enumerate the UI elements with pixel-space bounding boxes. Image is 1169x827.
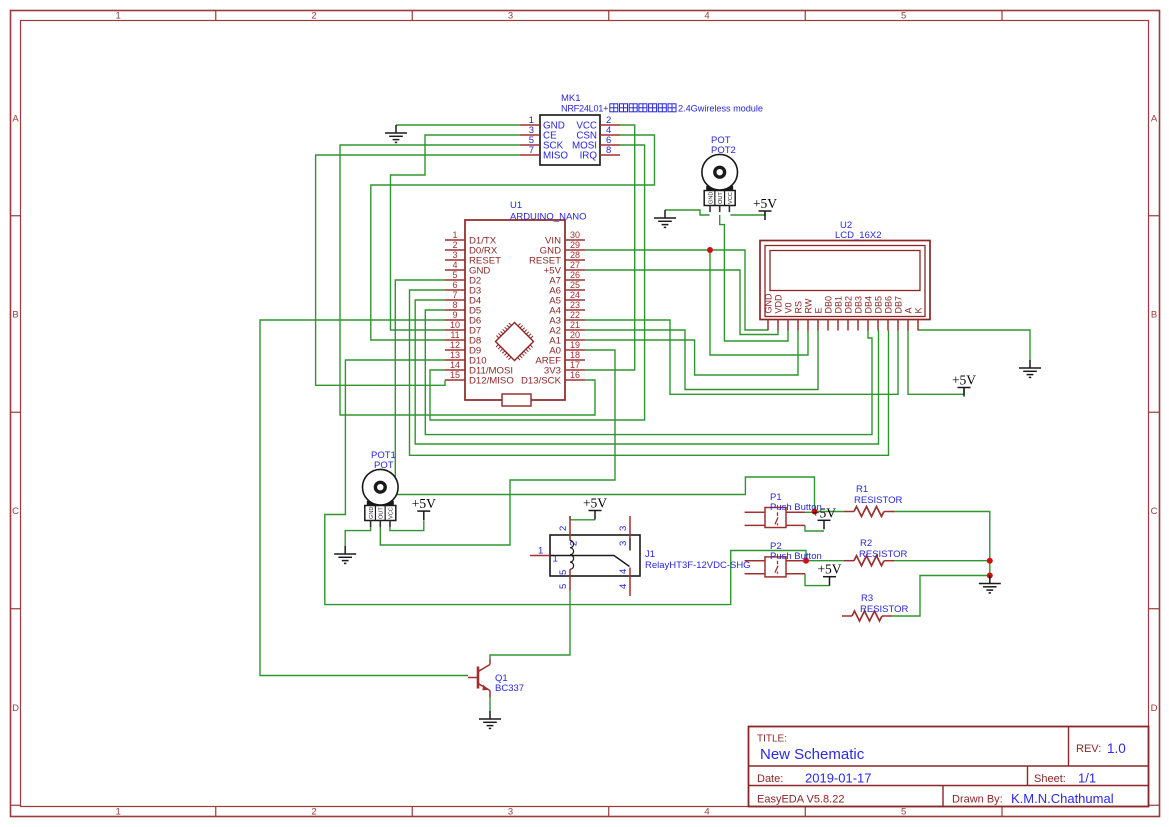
ground near POT2 — [654, 210, 676, 227]
wire relay pin2 to +5V — [570, 516, 595, 520]
relay J1 — [530, 516, 751, 596]
potentiometer POT1 — [363, 469, 399, 527]
svg-text:4: 4 — [452, 260, 457, 270]
svg-text:DB5: DB5 — [873, 296, 883, 314]
wire net LCD.A to +5V — [908, 330, 964, 394]
svg-text:TITLE:: TITLE: — [757, 734, 787, 745]
svg-text:+5V: +5V — [412, 496, 436, 511]
U2 pin 7 DB0 — [827, 320, 829, 331]
svg-text:3: 3 — [508, 807, 513, 818]
svg-text:6: 6 — [452, 280, 457, 290]
svg-text:RelayHT3F-12VDC-SHG: RelayHT3F-12VDC-SHG — [645, 560, 751, 571]
U2 pin 4 RS — [797, 320, 799, 331]
J1 pin 4 — [629, 568, 631, 597]
svg-text:7: 7 — [452, 290, 457, 300]
svg-text:GND: GND — [763, 293, 773, 314]
junction GND net — [707, 247, 713, 253]
J1 pin 1 — [530, 555, 550, 557]
svg-text:+5V: +5V — [817, 562, 841, 577]
IC U1 ARDUINO_NANO — [445, 200, 587, 406]
svg-text:C: C — [12, 506, 19, 517]
svg-text:2: 2 — [558, 526, 569, 531]
svg-text:1: 1 — [452, 230, 457, 240]
wire net +5V U1.27 to LCD.VDD — [585, 270, 778, 335]
svg-text:+5V: +5V — [952, 373, 976, 388]
U2 pin 2 VDD — [777, 320, 779, 331]
svg-text:+5V: +5V — [583, 496, 607, 511]
svg-text:2.4Gwireless module: 2.4Gwireless module — [678, 104, 763, 114]
U1 pin 10 D7 — [445, 329, 465, 331]
wire net MK1.CE to U1.D7 — [391, 135, 521, 330]
wire net U1.D5 to LCD.DB4 — [425, 310, 872, 435]
svg-text:RS: RS — [793, 301, 803, 314]
svg-text:30: 30 — [570, 230, 580, 240]
svg-text:23: 23 — [570, 300, 580, 310]
module MK1 NRF24L01 — [520, 93, 763, 165]
wire net U1.D3 to LCD.DB6 — [410, 290, 889, 455]
junction R3 ground rail — [987, 573, 993, 579]
svg-text:9: 9 — [452, 310, 457, 320]
svg-text:GND: GND — [708, 192, 714, 204]
wire net POT2.OUT to LCD.V0 — [720, 215, 788, 341]
wire net MK1.MISO to U1.D12 — [316, 155, 520, 385]
svg-text:4: 4 — [618, 569, 629, 574]
ground LCD K — [1019, 360, 1041, 377]
svg-text:8: 8 — [452, 300, 457, 310]
svg-text:24: 24 — [570, 290, 580, 300]
MK1 pin 8 IRQ — [600, 154, 620, 156]
svg-text:3: 3 — [452, 250, 457, 260]
U2 pin 14 DB7 — [897, 320, 899, 331]
wire R3 to ground rail — [892, 576, 990, 617]
svg-text:Push Button: Push Button — [770, 502, 822, 513]
svg-text:POT2: POT2 — [711, 145, 736, 156]
U1 pin 30 VIN — [565, 239, 585, 241]
J1 coil — [570, 541, 574, 570]
svg-text:22: 22 — [570, 310, 580, 320]
svg-text:11: 11 — [450, 330, 459, 340]
svg-text:7: 7 — [529, 145, 534, 156]
svg-text:RESISTOR: RESISTOR — [859, 549, 908, 560]
svg-text:2: 2 — [452, 240, 457, 250]
svg-text:21: 21 — [570, 320, 580, 330]
resistor R3 — [842, 611, 892, 621]
wire net U1.D6 to Q1 base — [260, 320, 468, 676]
svg-text:A: A — [903, 307, 913, 313]
wire Q1 emitter to ground — [489, 698, 491, 712]
U1 pin 9 D6 — [445, 319, 465, 321]
svg-text:NRF24L01+: NRF24L01+ — [561, 104, 609, 114]
wire net MK1.MOSI to U1.D11 — [430, 145, 645, 420]
svg-text:D: D — [1151, 703, 1158, 714]
J1 contact arm — [550, 556, 630, 567]
svg-text:D: D — [12, 703, 19, 714]
svg-text:VDD: VDD — [773, 294, 783, 314]
svg-text:DB2: DB2 — [843, 296, 853, 314]
U1 pin 7 D4 — [445, 299, 465, 301]
U2 pin 1 GND — [767, 320, 769, 331]
svg-text:16: 16 — [570, 370, 580, 380]
U1 pin 28 RESET — [565, 259, 585, 261]
MK1 pin 4 CSN — [600, 134, 620, 136]
svg-text:5: 5 — [452, 270, 457, 280]
svg-text:3: 3 — [618, 541, 629, 546]
wire junction to R1 — [815, 511, 845, 513]
+5V relay — [589, 511, 602, 520]
junction R2 ground rail — [987, 558, 993, 564]
MK1 pin 5 SCK — [520, 144, 540, 146]
svg-text:5: 5 — [901, 11, 906, 22]
+5V P2 — [823, 577, 836, 586]
svg-text:5: 5 — [558, 584, 569, 589]
U2 pin 15 A — [907, 320, 909, 331]
U1 pin 23 A4 — [565, 309, 585, 311]
svg-text:1: 1 — [115, 11, 120, 22]
svg-text:K.M.N.Chathumal: K.M.N.Chathumal — [1011, 791, 1114, 806]
U1 pin 14 D11/MOSI — [445, 369, 465, 371]
U1 pin 21 A2 — [565, 329, 585, 331]
svg-text:25: 25 — [570, 280, 580, 290]
svg-text:4: 4 — [704, 807, 709, 818]
svg-text:15: 15 — [450, 370, 460, 380]
svg-text:2: 2 — [311, 807, 316, 818]
svg-text:1: 1 — [115, 807, 120, 818]
svg-text:POT: POT — [374, 460, 394, 471]
U2 pin 3 V0 — [787, 320, 789, 331]
U1 pin 2 D0/RX — [445, 249, 465, 251]
U1 pin 25 A6 — [565, 289, 585, 291]
svg-text:27: 27 — [570, 260, 580, 270]
U2 pin 5 RW — [807, 320, 809, 331]
wire net LCD.K to ground — [918, 330, 1030, 360]
svg-text:3: 3 — [508, 11, 513, 22]
svg-text:E: E — [813, 307, 823, 313]
U1 pin 20 A1 — [565, 339, 585, 341]
ground Q1 emitter — [479, 711, 501, 728]
U2 pin 12 DB5 — [877, 320, 879, 331]
svg-text:26: 26 — [570, 270, 580, 280]
svg-text:DB7: DB7 — [893, 296, 903, 314]
U2 pin 6 E — [817, 320, 819, 331]
svg-text:D12/MISO: D12/MISO — [469, 376, 514, 387]
svg-text:8: 8 — [606, 145, 611, 156]
svg-text:DB1: DB1 — [833, 296, 843, 314]
display U2 LCD_16X2 — [760, 220, 930, 331]
svg-text:20: 20 — [570, 330, 580, 340]
svg-text:1/1: 1/1 — [1078, 771, 1096, 786]
wire net U1.A1 to LCD.RS — [585, 330, 798, 375]
svg-text:B: B — [12, 310, 18, 321]
svg-text:VCC: VCC — [728, 192, 734, 204]
svg-text:BC337: BC337 — [495, 683, 524, 694]
transistor Q1 BC337 — [468, 659, 524, 698]
U1 pin 19 A0 — [565, 349, 585, 351]
svg-text:2019-01-17: 2019-01-17 — [805, 771, 872, 786]
wire P1 pin to junction — [805, 511, 815, 513]
U1 pin 3 RESET — [445, 259, 465, 261]
+5V LCD A — [958, 388, 971, 397]
svg-text:5: 5 — [558, 570, 569, 575]
svg-text:5: 5 — [901, 807, 906, 818]
U1 pin 13 D10 — [445, 359, 465, 361]
svg-text:17: 17 — [570, 360, 580, 370]
svg-text:LCD_16X2: LCD_16X2 — [835, 230, 881, 241]
svg-text:GND: GND — [369, 507, 375, 519]
svg-text:IRQ: IRQ — [580, 151, 598, 162]
svg-text:R2: R2 — [860, 538, 872, 549]
svg-text:J1: J1 — [645, 549, 655, 560]
U1 pin 1 D1/TX — [445, 239, 465, 241]
svg-text:EasyEDA V5.8.22: EasyEDA V5.8.22 — [757, 794, 844, 806]
U2 pin 9 DB2 — [847, 320, 849, 331]
J1 pin 3 — [629, 516, 631, 538]
svg-text:R3: R3 — [861, 593, 873, 604]
potentiometer POT2 — [702, 154, 738, 212]
wire net U1.D10 to P2 — [325, 360, 806, 605]
U2 pin 13 DB6 — [887, 320, 889, 331]
svg-text:18: 18 — [570, 350, 580, 360]
svg-text:V0: V0 — [783, 302, 793, 313]
push button P1 — [745, 508, 805, 528]
U1 pin 5 D2 — [445, 279, 465, 281]
svg-text:28: 28 — [570, 250, 580, 260]
U1 pin 15 D12/MISO — [445, 379, 465, 381]
U1 USB connector glyph — [502, 394, 531, 406]
svg-text:REV:: REV: — [1076, 743, 1101, 755]
svg-text:A: A — [12, 114, 19, 125]
wire P1 lower pin to +5V — [805, 525, 824, 531]
MK1 pin 1 GND — [520, 124, 540, 126]
svg-text:U1: U1 — [510, 200, 522, 211]
wire net MK1.VCC to U1.3V3 — [585, 125, 635, 370]
MK1 pin 2 VCC — [600, 124, 620, 126]
svg-text:DB0: DB0 — [823, 296, 833, 314]
resistor R2 — [844, 556, 894, 566]
svg-text:ARDUINO_NANO: ARDUINO_NANO — [510, 212, 587, 223]
svg-text:K: K — [913, 307, 923, 313]
wire POT2 GND to ground — [665, 210, 710, 215]
ground near MK1 — [385, 125, 407, 142]
svg-text:C: C — [1151, 506, 1158, 517]
svg-text:D13/SCK: D13/SCK — [521, 376, 562, 387]
U1 pin 11 D8 — [445, 339, 465, 341]
svg-text:14: 14 — [450, 360, 460, 370]
U1 pin 12 D9 — [445, 349, 465, 351]
U2 pin 8 DB1 — [837, 320, 839, 331]
svg-text:DB6: DB6 — [883, 296, 893, 314]
MK1 pin 3 CE — [520, 134, 540, 136]
wire POT1 VCC to +5V — [390, 520, 424, 530]
svg-text:VCC: VCC — [388, 507, 394, 519]
U1 pin 26 A7 — [565, 279, 585, 281]
U1 pin 24 A5 — [565, 299, 585, 301]
wire net U1.A3 to LCD.DB7 — [585, 320, 898, 394]
wire ground rail segment — [989, 561, 991, 576]
U1 pin 4 GND — [445, 269, 465, 271]
+5V POT2 — [759, 211, 772, 220]
svg-text:1: 1 — [538, 546, 543, 557]
svg-text:Date:: Date: — [757, 773, 783, 785]
svg-text:4: 4 — [704, 11, 709, 22]
svg-text:New Schematic: New Schematic — [760, 746, 865, 763]
wire net GND branch to LCD.RW — [710, 250, 808, 355]
svg-text:Push Button: Push Button — [770, 551, 822, 562]
svg-text:MK1: MK1 — [561, 93, 581, 104]
J1 pin 2 — [569, 516, 571, 541]
svg-text:1.0: 1.0 — [1107, 741, 1126, 756]
wire net U1.A2 to LCD.E — [585, 330, 818, 390]
svg-text:OUT: OUT — [379, 507, 385, 519]
svg-text:10: 10 — [450, 320, 460, 330]
U1 pin 8 D5 — [445, 309, 465, 311]
U1 pin 29 GND — [565, 249, 585, 251]
svg-text:12: 12 — [450, 340, 460, 350]
MK1 pin 6 MOSI — [600, 144, 620, 146]
svg-text:Sheet:: Sheet: — [1034, 773, 1066, 785]
svg-text:RW: RW — [803, 298, 813, 313]
junction P2/R2/D10 — [803, 558, 809, 564]
svg-text:A: A — [1151, 114, 1158, 125]
ground near POT1 — [334, 546, 356, 563]
resistor R1 — [844, 507, 894, 517]
wire net U1.D4 to LCD.DB5 — [415, 300, 878, 444]
svg-text:13: 13 — [450, 350, 460, 360]
U1 pin 22 A3 — [565, 319, 585, 321]
svg-text:19: 19 — [570, 340, 580, 350]
U1 QFP chip glyph — [496, 323, 534, 361]
junction P1/R1/D2 — [812, 509, 818, 515]
svg-text:MISO: MISO — [543, 151, 568, 162]
wire POT2 VCC to +5V — [730, 211, 765, 215]
svg-text:B: B — [1151, 310, 1157, 321]
U1 pin 27 +5V — [565, 269, 585, 271]
+5V P1 — [818, 520, 831, 529]
wire net MK1.CSN to U1.D8 — [371, 135, 655, 340]
svg-text:2: 2 — [311, 11, 316, 22]
U1 pin 16 D13/SCK — [565, 379, 585, 381]
wire R2 to ground rail — [892, 560, 990, 562]
svg-text:+5V: +5V — [753, 196, 777, 211]
svg-text:29: 29 — [570, 240, 580, 250]
svg-text:3: 3 — [618, 526, 629, 531]
push button P2 — [745, 557, 805, 577]
wire P2 lower pin to +5V — [805, 574, 830, 586]
wire net U1.A0 to POT1.OUT — [380, 350, 615, 545]
U2 pin 16 K — [917, 320, 919, 331]
wire net U1.D2 to P1 — [395, 280, 814, 512]
svg-text:DB3: DB3 — [853, 296, 863, 314]
U1 pin 18 AREF — [565, 359, 585, 361]
U1 pin 17 3V3 — [565, 369, 585, 371]
ground resistor rail — [979, 576, 1001, 593]
wire net MK1.SCK to U1.D13 — [340, 145, 595, 415]
svg-text:RESISTOR: RESISTOR — [860, 604, 909, 615]
+5V POT1 — [417, 511, 430, 520]
wire R1 to ground rail — [892, 512, 990, 561]
U2 pin 10 DB3 — [857, 320, 859, 331]
svg-text:RESISTOR: RESISTOR — [854, 495, 903, 506]
svg-text:R1: R1 — [856, 484, 868, 495]
U2 pin 11 DB4 — [867, 320, 869, 331]
svg-text:OUT: OUT — [718, 192, 724, 204]
J1 pin 5 — [569, 569, 571, 591]
wire P2 junction to R2 — [806, 560, 844, 562]
wire net GND U1.29 to LCD.GND — [585, 250, 768, 330]
wire relay pin5 to Q1 collector — [490, 591, 570, 659]
MK1 pin 7 MISO — [520, 154, 540, 156]
title block — [749, 727, 1149, 807]
svg-text:4: 4 — [618, 584, 629, 589]
wire POT1 GND to ground — [345, 527, 370, 546]
svg-text:DB4: DB4 — [863, 296, 873, 314]
U1 pin 6 D3 — [445, 289, 465, 291]
wire MK1 GND to ground — [396, 124, 520, 126]
svg-text:Drawn By:: Drawn By: — [952, 794, 1003, 806]
